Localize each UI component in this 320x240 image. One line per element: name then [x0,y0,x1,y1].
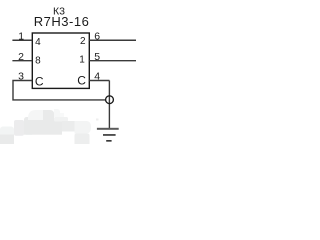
svg-text:2: 2 [80,36,86,47]
svg-text:8: 8 [35,55,41,66]
svg-text:C: C [35,75,44,89]
wire pin5 [89,60,136,62]
svg-text:R7H3-16: R7H3-16 [34,14,90,29]
svg-text:3: 3 [18,71,24,83]
node A junction circle [106,96,114,104]
wire pin4 vertical to ground [108,81,110,129]
svg-text:5: 5 [94,51,100,63]
wire pin4 horizontal [89,80,109,82]
svg-text:1: 1 [18,30,24,42]
wire pin2 [12,60,32,62]
svg-text:4: 4 [94,70,100,82]
wire pin3 to node A [13,81,106,100]
svg-text:2: 2 [18,51,24,63]
watermark cloud background [0,109,99,144]
IC U1 body R7H3-16 [32,33,89,88]
svg-text:4: 4 [35,37,41,48]
wire pin6 [89,39,136,41]
svg-text:6: 6 [94,30,100,42]
svg-text:1: 1 [79,55,85,66]
svg-text:C: C [77,74,86,88]
wire pin1 [12,39,32,41]
ground [97,128,119,142]
